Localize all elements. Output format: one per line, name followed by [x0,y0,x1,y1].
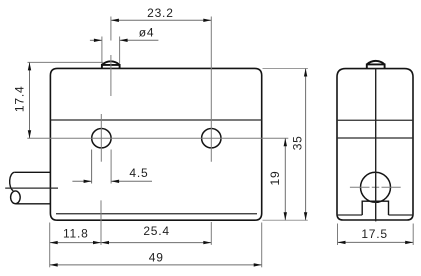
front case seam line [50,119,261,121]
right mounting hole [202,129,221,148]
svg-text:11.8: 11.8 [63,227,89,241]
dimension 17.5 right arrow [405,241,413,244]
side case seam line [337,119,413,121]
dimension 35 top arrow [304,69,307,77]
dimension 23.2 line [111,19,211,21]
svg-text:23.2: 23.2 [147,6,174,20]
dimension 19 line [284,138,286,220]
dimension 17.4 top extension [28,61,104,63]
svg-text:17.5: 17.5 [361,227,388,241]
svg-text:35: 35 [290,135,304,150]
dimension 25.4 left arrow [101,241,109,244]
dimension 25.4 right arrow [203,241,211,244]
holes horizontal centerline [27,137,288,139]
side base seam left [337,214,362,216]
dimension 23.2 left arrow [111,19,119,22]
front view body outline [50,68,261,220]
dimension 17.5 left arrow [338,241,346,244]
right bottom extension [263,219,308,221]
dimension o4 left arrow [94,39,102,42]
dimension o4 left extension [101,37,103,64]
dimension 4.5 left arrow [84,180,92,183]
right hole vertical centerline and 23.2 extension [210,17,212,162]
bottom right edge extension [261,223,263,268]
dimension 17.5 line [338,241,414,243]
svg-text:25.4: 25.4 [143,224,170,238]
dimension 23.2 left extension [110,17,112,41]
svg-text:19: 19 [268,171,282,186]
cable axis line [5,187,58,189]
side plunger button [367,61,385,69]
dimension 4.5 right arrow [111,180,119,183]
dimension o4 right extension [119,37,121,64]
side base seam right [389,214,414,216]
dimension 23.2 right arrow [203,19,211,22]
cable left end arc [10,172,15,190]
side cable hole circle [361,172,391,202]
dimension o4 right leader [120,39,159,41]
dimension 17.4 line [29,62,31,138]
dimension 17.4 top arrow [28,62,31,70]
dimension o4 right arrow [120,39,128,42]
dimension 4.5 left leader [72,180,91,182]
cable bottom line [15,203,50,205]
side bottom slot notch [362,201,388,215]
side mid line [337,137,413,139]
dimension 17.5 right extension [412,224,414,246]
front plunger centerline [110,55,112,96]
left mounting hole [92,129,111,148]
right top extension [263,68,308,70]
front base seam line [56,213,257,215]
dimension 11.8 left arrow [50,241,58,244]
front plunger button [102,61,120,68]
dimension 49 right arrow [254,263,262,266]
dimension 19 top arrow [284,138,287,146]
dimension o4 left leader [90,39,102,41]
svg-text:17.4: 17.4 [12,86,26,113]
svg-text:ø4: ø4 [139,25,155,39]
dimension 17.4 bottom arrow [28,130,31,138]
cable top line [15,171,51,173]
dimension 35 line [305,69,307,221]
cable end ellipse [11,191,21,204]
dimension 35 bottom arrow [304,212,307,220]
svg-text:4.5: 4.5 [129,166,148,180]
side view body outline [337,69,413,220]
left hole bottom extension [100,200,102,245]
dimension 4.5 right leader [111,180,152,182]
dimension 49 line [50,264,262,266]
right hole bottom extension [210,222,212,245]
left hole vertical centerline [100,114,102,162]
bottom left edge extension [49,223,51,268]
dimension 49 left arrow [50,263,58,266]
svg-text:49: 49 [149,251,164,265]
dimension 19 bottom arrow [284,212,287,220]
dimension 11.8 right arrow [93,241,101,244]
dimension 17.5 left extension [337,224,339,246]
dimension 4.5 left extension [91,150,93,184]
dimension 25.4 line [101,242,211,244]
dimension 11.8 line [50,242,101,244]
dimension 4.5 right extension [110,150,112,184]
side vertical centerline [375,69,377,222]
side circle horizontal centermark [350,186,401,188]
